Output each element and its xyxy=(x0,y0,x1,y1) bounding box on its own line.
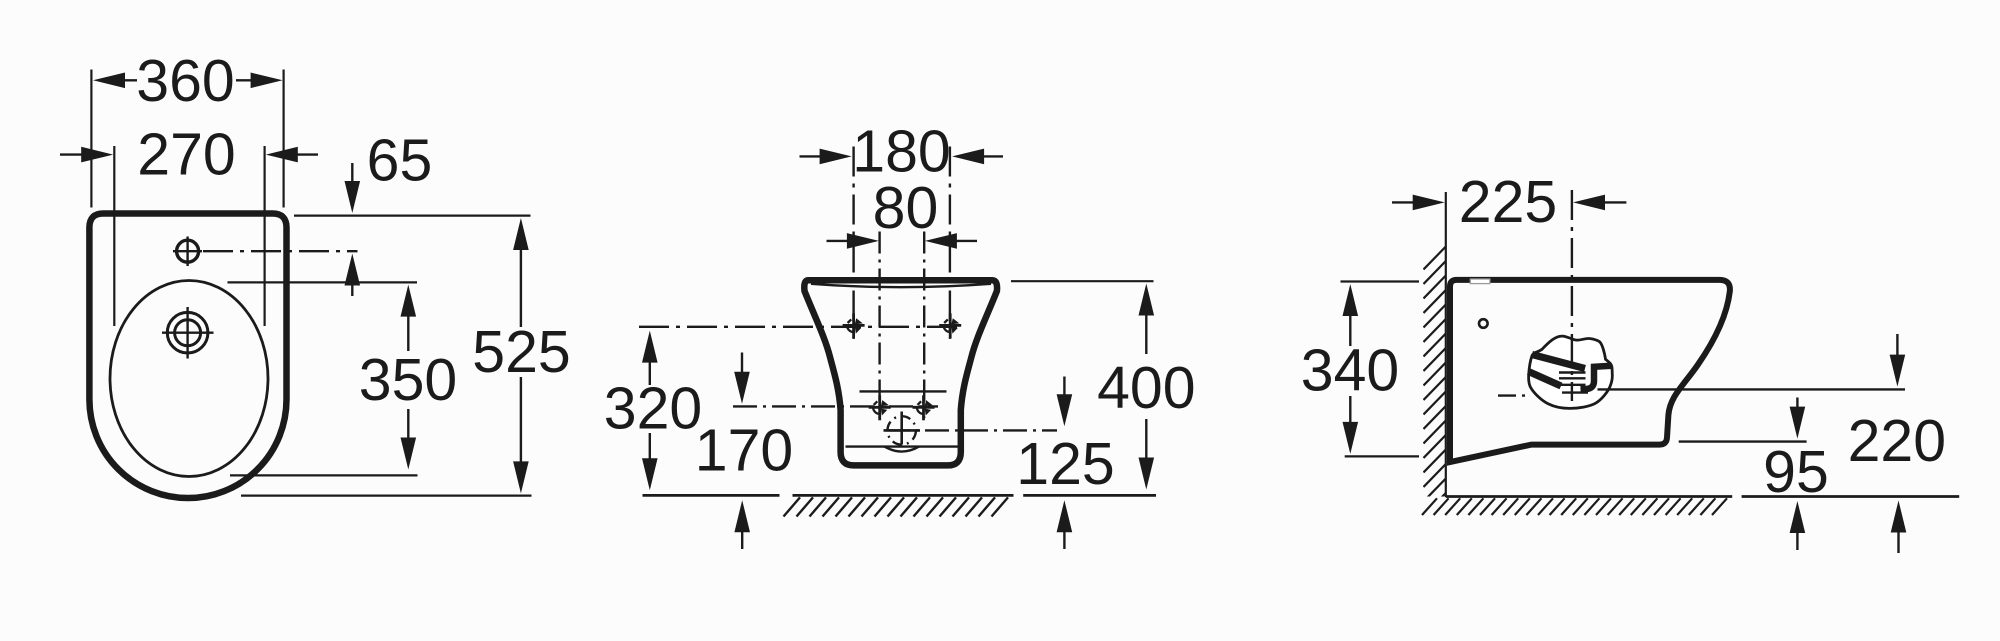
svg-text:525: 525 xyxy=(472,319,570,385)
svg-text:350: 350 xyxy=(359,347,457,413)
svg-text:125: 125 xyxy=(1016,431,1114,497)
svg-text:225: 225 xyxy=(1459,169,1557,235)
svg-text:340: 340 xyxy=(1301,338,1399,404)
svg-text:65: 65 xyxy=(367,128,433,194)
svg-text:360: 360 xyxy=(136,48,234,114)
svg-text:320: 320 xyxy=(604,376,702,442)
svg-text:80: 80 xyxy=(873,175,939,241)
svg-text:400: 400 xyxy=(1097,355,1195,421)
svg-text:220: 220 xyxy=(1848,408,1946,474)
svg-text:270: 270 xyxy=(137,122,235,188)
svg-text:170: 170 xyxy=(695,418,793,484)
